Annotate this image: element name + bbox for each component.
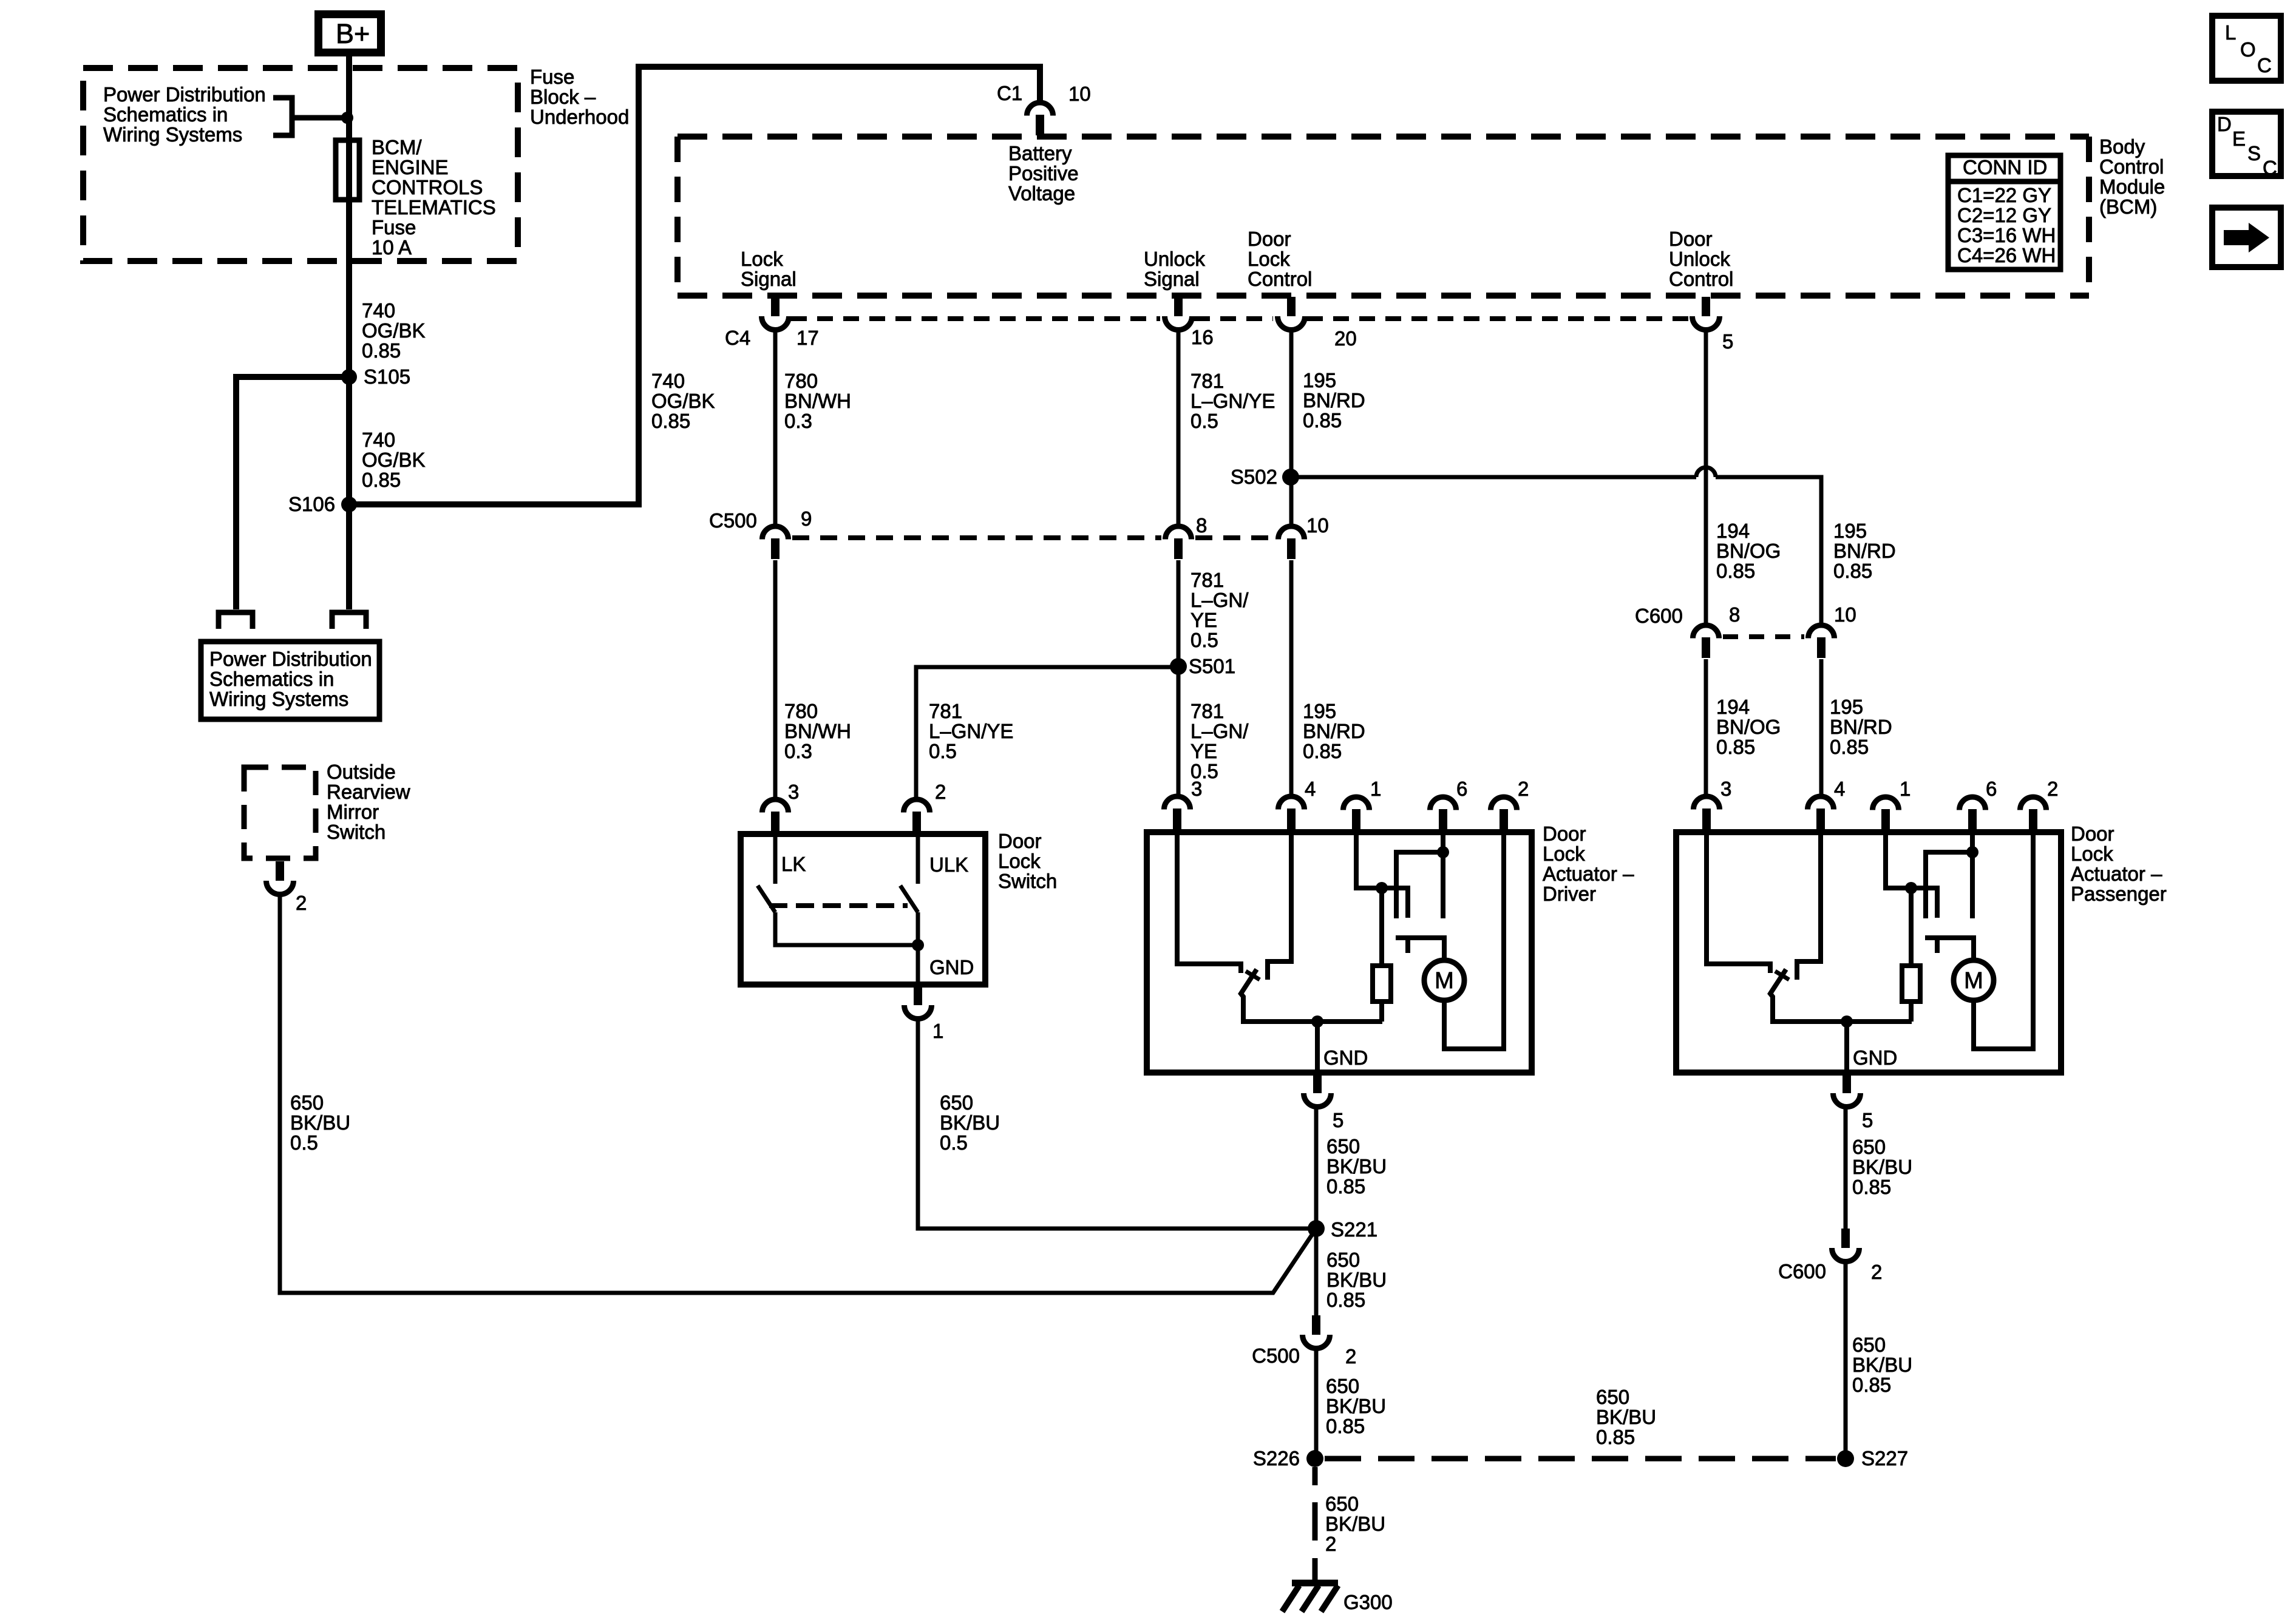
svg-text:S221: S221 bbox=[1331, 1218, 1377, 1241]
wire C500-2 to S226 bbox=[1314, 1349, 1319, 1459]
svg-text:C600: C600 bbox=[1778, 1260, 1826, 1283]
wire ULK blade to GND pin bbox=[916, 912, 920, 985]
wire mirror switch to S221 bbox=[280, 895, 1316, 1293]
connector passenger actuator pin 1 (stub) bbox=[1873, 797, 1899, 830]
connector door lock switch pin 1 bbox=[905, 986, 932, 1019]
svg-text:C500: C500 bbox=[1252, 1344, 1300, 1367]
wire S501 to driver actuator pin 3 bbox=[1177, 667, 1181, 796]
door lock switch box bbox=[741, 834, 985, 985]
svg-text:2: 2 bbox=[1518, 778, 1529, 800]
B+ battery positive terminal box bbox=[319, 15, 381, 53]
connector driver actuator pin 4 bbox=[1279, 796, 1305, 829]
page connector bracket right bbox=[332, 612, 366, 629]
svg-text:G300: G300 bbox=[1343, 1591, 1393, 1613]
svg-text:2: 2 bbox=[2047, 778, 2058, 800]
wire B+ down through fuse to S105 bbox=[346, 56, 352, 377]
svg-text:C1: C1 bbox=[997, 82, 1022, 104]
svg-text:1: 1 bbox=[1900, 778, 1911, 800]
svg-text:20: 20 bbox=[1334, 327, 1357, 350]
connector C4 pin 20 (door lock control) bbox=[1278, 297, 1305, 330]
forward arrow box bbox=[2212, 208, 2281, 267]
svg-text:3: 3 bbox=[1720, 778, 1731, 800]
svg-text:2: 2 bbox=[1345, 1345, 1356, 1368]
svg-text:S226: S226 bbox=[1253, 1447, 1300, 1470]
svg-text:CONN ID: CONN ID bbox=[1963, 156, 2047, 178]
wire driver actuator ground to S221 and C500 bbox=[1314, 1107, 1319, 1315]
door lock actuator - driver bbox=[1147, 832, 1532, 1073]
connector C600 pin 10 bbox=[1809, 625, 1835, 658]
wire LK blade to common bbox=[775, 912, 918, 945]
body control module dashed box bbox=[678, 137, 2089, 296]
svg-text:10: 10 bbox=[1068, 83, 1091, 105]
svg-text:10: 10 bbox=[1306, 514, 1329, 537]
junction S105 bbox=[341, 369, 357, 385]
svg-text:L: L bbox=[2225, 21, 2236, 44]
connector C500 pin 10 bbox=[1279, 526, 1305, 559]
wire C600-2 to S227 bbox=[1844, 1262, 1848, 1459]
wire door lock control BCM to S502 bbox=[1289, 330, 1294, 526]
C600 harness dashed line bbox=[1723, 634, 1804, 639]
fuse block underhood dashed box bbox=[83, 68, 518, 261]
connector C600 pin 8 bbox=[1693, 625, 1719, 658]
svg-text:D: D bbox=[2217, 113, 2232, 135]
svg-text:16: 16 bbox=[1191, 326, 1214, 348]
C500 harness dashed line bbox=[792, 535, 1274, 540]
junction S226 bbox=[1306, 1450, 1323, 1467]
door lock actuator - passenger bbox=[1676, 832, 2061, 1073]
ULK switch blade bbox=[900, 886, 918, 912]
connector passenger actuator pin 6 (stub) bbox=[1960, 797, 1986, 830]
wire S501 branch to door lock switch pin 2 bbox=[916, 667, 1178, 799]
connector door lock switch pin 2 bbox=[904, 799, 930, 832]
svg-text:S106: S106 bbox=[288, 493, 335, 515]
wire S106 stub down to page bracket bbox=[346, 504, 352, 609]
svg-text:GND: GND bbox=[929, 956, 974, 978]
wire door unlock control BCM to C600 bbox=[1704, 330, 1708, 625]
svg-text:S105: S105 bbox=[364, 365, 410, 388]
connector passenger actuator pin 2 (stub) bbox=[2020, 797, 2046, 830]
connector driver actuator pin 2 (stub) bbox=[1491, 797, 1517, 830]
connector door lock switch pin 3 bbox=[763, 799, 789, 832]
junction dot switch common bbox=[912, 939, 924, 951]
svg-text:ULK: ULK bbox=[929, 853, 968, 876]
svg-text:6: 6 bbox=[1986, 778, 1997, 800]
wire S226 to G300 dashed bbox=[1313, 1467, 1318, 1581]
wire C500-10 to driver actuator pin 4 bbox=[1289, 560, 1294, 796]
svg-text:4: 4 bbox=[1305, 778, 1316, 800]
svg-text:2: 2 bbox=[935, 781, 946, 803]
wire S226 to S227 dashed bbox=[1325, 1456, 1836, 1462]
power distribution schematics box bbox=[201, 642, 379, 719]
fuse BCM/ENGINE CONTROLS TELEMATICS 10 A bbox=[336, 140, 359, 200]
connector C4 pin 17 (lock signal) bbox=[762, 297, 789, 330]
bracket from power distribution label bbox=[273, 98, 292, 135]
LK switch blade bbox=[758, 886, 775, 912]
wire S502 to C600 pin 10 with hop bbox=[1291, 467, 1821, 625]
ground G300 bbox=[1282, 1583, 1338, 1612]
wire S105 to S106 bbox=[346, 377, 352, 504]
svg-text:E: E bbox=[2232, 127, 2246, 150]
svg-text:17: 17 bbox=[796, 327, 819, 349]
svg-text:O: O bbox=[2240, 38, 2256, 61]
connector driver actuator pin 3 bbox=[1164, 796, 1190, 829]
svg-text:6: 6 bbox=[1456, 778, 1467, 800]
svg-text:S: S bbox=[2247, 142, 2261, 164]
svg-text:2: 2 bbox=[296, 892, 307, 914]
junction S221 bbox=[1308, 1220, 1325, 1237]
page connector bracket left bbox=[219, 612, 253, 629]
svg-text:C: C bbox=[2257, 54, 2272, 76]
svg-text:5: 5 bbox=[1722, 330, 1733, 353]
connector C500 pin 8 bbox=[1166, 526, 1192, 559]
svg-text:C500: C500 bbox=[709, 509, 757, 532]
svg-text:8: 8 bbox=[1729, 603, 1740, 626]
C4 harness dotted line bbox=[791, 316, 1688, 321]
svg-text:B+: B+ bbox=[336, 18, 370, 49]
svg-text:C4: C4 bbox=[725, 327, 750, 349]
svg-text:2: 2 bbox=[1871, 1261, 1882, 1283]
connector driver actuator pin 1 (stub) bbox=[1343, 797, 1370, 830]
svg-text:10: 10 bbox=[1834, 603, 1856, 626]
svg-text:1: 1 bbox=[932, 1020, 943, 1042]
connector C1 pin 10 bbox=[1027, 103, 1053, 135]
svg-text:LK: LK bbox=[781, 853, 806, 875]
DESC reference box bbox=[2212, 112, 2281, 179]
wire lock signal BCM to C500 bbox=[773, 330, 778, 526]
svg-text:3: 3 bbox=[1191, 778, 1202, 800]
wire unlock signal BCM to C500 bbox=[1177, 330, 1181, 526]
outside rearview mirror switch dashed box bbox=[244, 767, 316, 858]
svg-text:C1=22 GYC2=12 GYC3=16 WHC4=26: C1=22 GYC2=12 GYC3=16 WHC4=26 WH bbox=[1957, 184, 2056, 266]
connector C4 pin 16 (unlock signal) bbox=[1165, 297, 1192, 330]
junction dot at fuse feed bbox=[341, 112, 353, 124]
svg-text:8: 8 bbox=[1196, 514, 1207, 537]
svg-text:C600: C600 bbox=[1635, 605, 1683, 627]
svg-text:BatteryPositiveVoltage: BatteryPositiveVoltage bbox=[1008, 142, 1079, 205]
svg-text:S227: S227 bbox=[1861, 1447, 1908, 1470]
ULK switch contact stub bbox=[916, 834, 920, 884]
svg-text:1: 1 bbox=[1370, 778, 1381, 800]
wire C500-8 to S501 bbox=[1177, 560, 1181, 667]
svg-text:S502: S502 bbox=[1231, 466, 1277, 488]
switch linkage dashed bbox=[769, 903, 908, 908]
connector passenger actuator pin 5 (GND) bbox=[1833, 1074, 1861, 1107]
connector C500 pin 9 bbox=[763, 526, 789, 559]
svg-text:UnlockSignal: UnlockSignal bbox=[1144, 248, 1205, 290]
connector C4 pin 5 (door unlock control) bbox=[1693, 297, 1720, 330]
wire C500-9 to door lock switch pin 3 bbox=[773, 560, 778, 799]
svg-text:9: 9 bbox=[801, 507, 812, 530]
connector driver actuator pin 6 (stub) bbox=[1430, 797, 1456, 830]
junction S501 bbox=[1170, 658, 1187, 675]
wire passenger actuator ground to C600 bbox=[1844, 1107, 1848, 1229]
svg-text:C: C bbox=[2263, 157, 2277, 179]
junction S227 bbox=[1837, 1450, 1854, 1467]
LK switch contact stub bbox=[773, 834, 778, 884]
connector passenger actuator pin 4 bbox=[1808, 796, 1834, 829]
wire C600-8 to passenger actuator pin 3 bbox=[1704, 659, 1708, 796]
connector driver actuator pin 5 (GND) bbox=[1304, 1074, 1331, 1107]
wire S106 up and over to C1 bbox=[349, 67, 1040, 504]
mirror switch pin 2 connector bbox=[267, 861, 294, 895]
wire S105 branch to page bracket bbox=[236, 377, 349, 609]
svg-text:3: 3 bbox=[788, 781, 799, 803]
wire bracket to battery feed bbox=[292, 115, 349, 121]
connector C500 pin 2 bbox=[1303, 1315, 1330, 1349]
junction S106 bbox=[341, 497, 357, 512]
connector passenger actuator pin 3 bbox=[1694, 796, 1720, 829]
wire C600-10 to passenger actuator pin 4 bbox=[1819, 659, 1824, 796]
junction S502 bbox=[1282, 469, 1299, 486]
svg-text:4: 4 bbox=[1834, 778, 1845, 800]
svg-text:S501: S501 bbox=[1189, 655, 1235, 677]
svg-text:5: 5 bbox=[1862, 1109, 1873, 1131]
wire switch pin 1 to S221 bbox=[918, 1020, 1316, 1229]
connector C600 pin 2 bbox=[1832, 1229, 1860, 1262]
CONN ID table bbox=[1946, 155, 2063, 269]
LOC reference box bbox=[2212, 16, 2281, 81]
svg-text:5: 5 bbox=[1333, 1109, 1343, 1131]
